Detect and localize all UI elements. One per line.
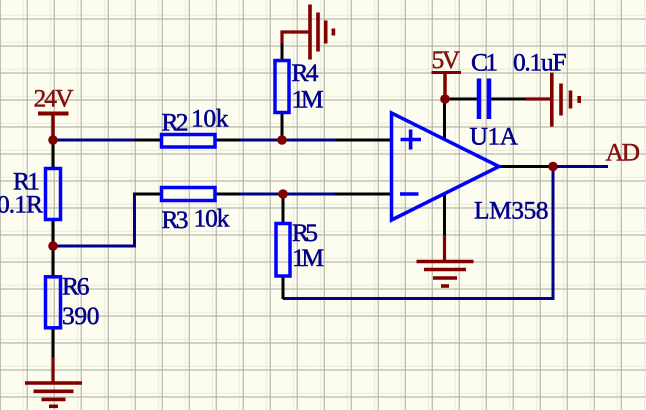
pin R5 top — [282, 194, 285, 223]
pin op-amp output — [499, 165, 553, 168]
power port 5V — [432, 45, 462, 99]
resistor R4 — [275, 58, 324, 114]
svg-text:1M: 1M — [292, 85, 324, 114]
pin R4 bottom — [281, 113, 284, 140]
resistor R2 — [162, 104, 229, 148]
svg-text:R2: R2 — [162, 108, 189, 137]
junction node E (output) — [548, 162, 558, 172]
wire node C right and up to R3 — [53, 195, 135, 246]
svg-text:0.1R: 0.1R — [0, 190, 43, 219]
pin op-amp plus input — [336, 139, 391, 142]
wire output node E to AD — [553, 165, 608, 168]
pin R3 left — [133, 193, 162, 196]
pin op-amp minus input — [335, 193, 391, 196]
pin R6 bottom — [52, 328, 55, 357]
power port 24V — [34, 84, 75, 141]
op-amp U1A — [392, 113, 549, 225]
wire 24V junction to R2 left — [53, 139, 136, 142]
pin R2 left — [135, 139, 163, 142]
junction node D (R3/R5/minus) — [278, 189, 288, 199]
pin R1 top — [52, 140, 55, 168]
ground (above R4, rotated) — [282, 5, 333, 60]
svg-text:10k: 10k — [194, 204, 230, 233]
wire C1 right plate to ground stem — [491, 98, 526, 101]
svg-text:AD: AD — [606, 138, 641, 167]
wire 5V node to C1 left plate — [445, 98, 477, 101]
svg-text:390: 390 — [62, 301, 100, 330]
svg-text:24V: 24V — [34, 84, 75, 113]
svg-text:R6: R6 — [62, 272, 90, 301]
resistor R5 — [276, 218, 324, 276]
svg-text:U1A: U1A — [470, 122, 519, 151]
wire R2 right to node B — [241, 139, 283, 142]
svg-text:C1: C1 — [471, 48, 498, 77]
wire node B to op-amp plus input — [282, 139, 336, 142]
pin op-amp V+ — [443, 99, 446, 139]
pin R6 top — [52, 246, 55, 277]
svg-text:R3: R3 — [162, 205, 189, 234]
junction node C (R1/R6) — [48, 241, 58, 251]
svg-text:R4: R4 — [292, 58, 319, 87]
svg-text:5V: 5V — [432, 45, 461, 74]
resistor R1 — [0, 167, 61, 220]
capacitor C1 — [471, 48, 567, 120]
pin R3 right — [216, 193, 241, 196]
wire feedback node E down and left to R5 bottom — [283, 167, 553, 299]
junction node A (24V rail) — [48, 135, 58, 145]
pin R5 bottom — [282, 277, 285, 299]
wire node D to op-amp minus input — [283, 193, 335, 196]
pin op-amp V- — [443, 194, 446, 236]
ground (below R6) — [25, 357, 82, 406]
wire R3 right to node D — [240, 193, 283, 196]
svg-text:1M: 1M — [292, 243, 324, 272]
svg-text:LM358: LM358 — [474, 196, 549, 225]
pin R1 bottom — [52, 220, 55, 246]
svg-text:0.1uF: 0.1uF — [513, 48, 567, 77]
resistor R6 — [46, 272, 100, 331]
ground (right of C1, rotated) — [526, 73, 579, 127]
junction node F (5V rail) — [440, 94, 450, 104]
pin R2 right — [216, 139, 241, 142]
pin R4 top — [281, 44, 284, 61]
resistor R3 — [162, 188, 230, 235]
junction node B (R2/R4/plus) — [277, 135, 287, 145]
svg-text:10k: 10k — [191, 104, 229, 133]
ground (below op-amp) — [417, 235, 474, 286]
